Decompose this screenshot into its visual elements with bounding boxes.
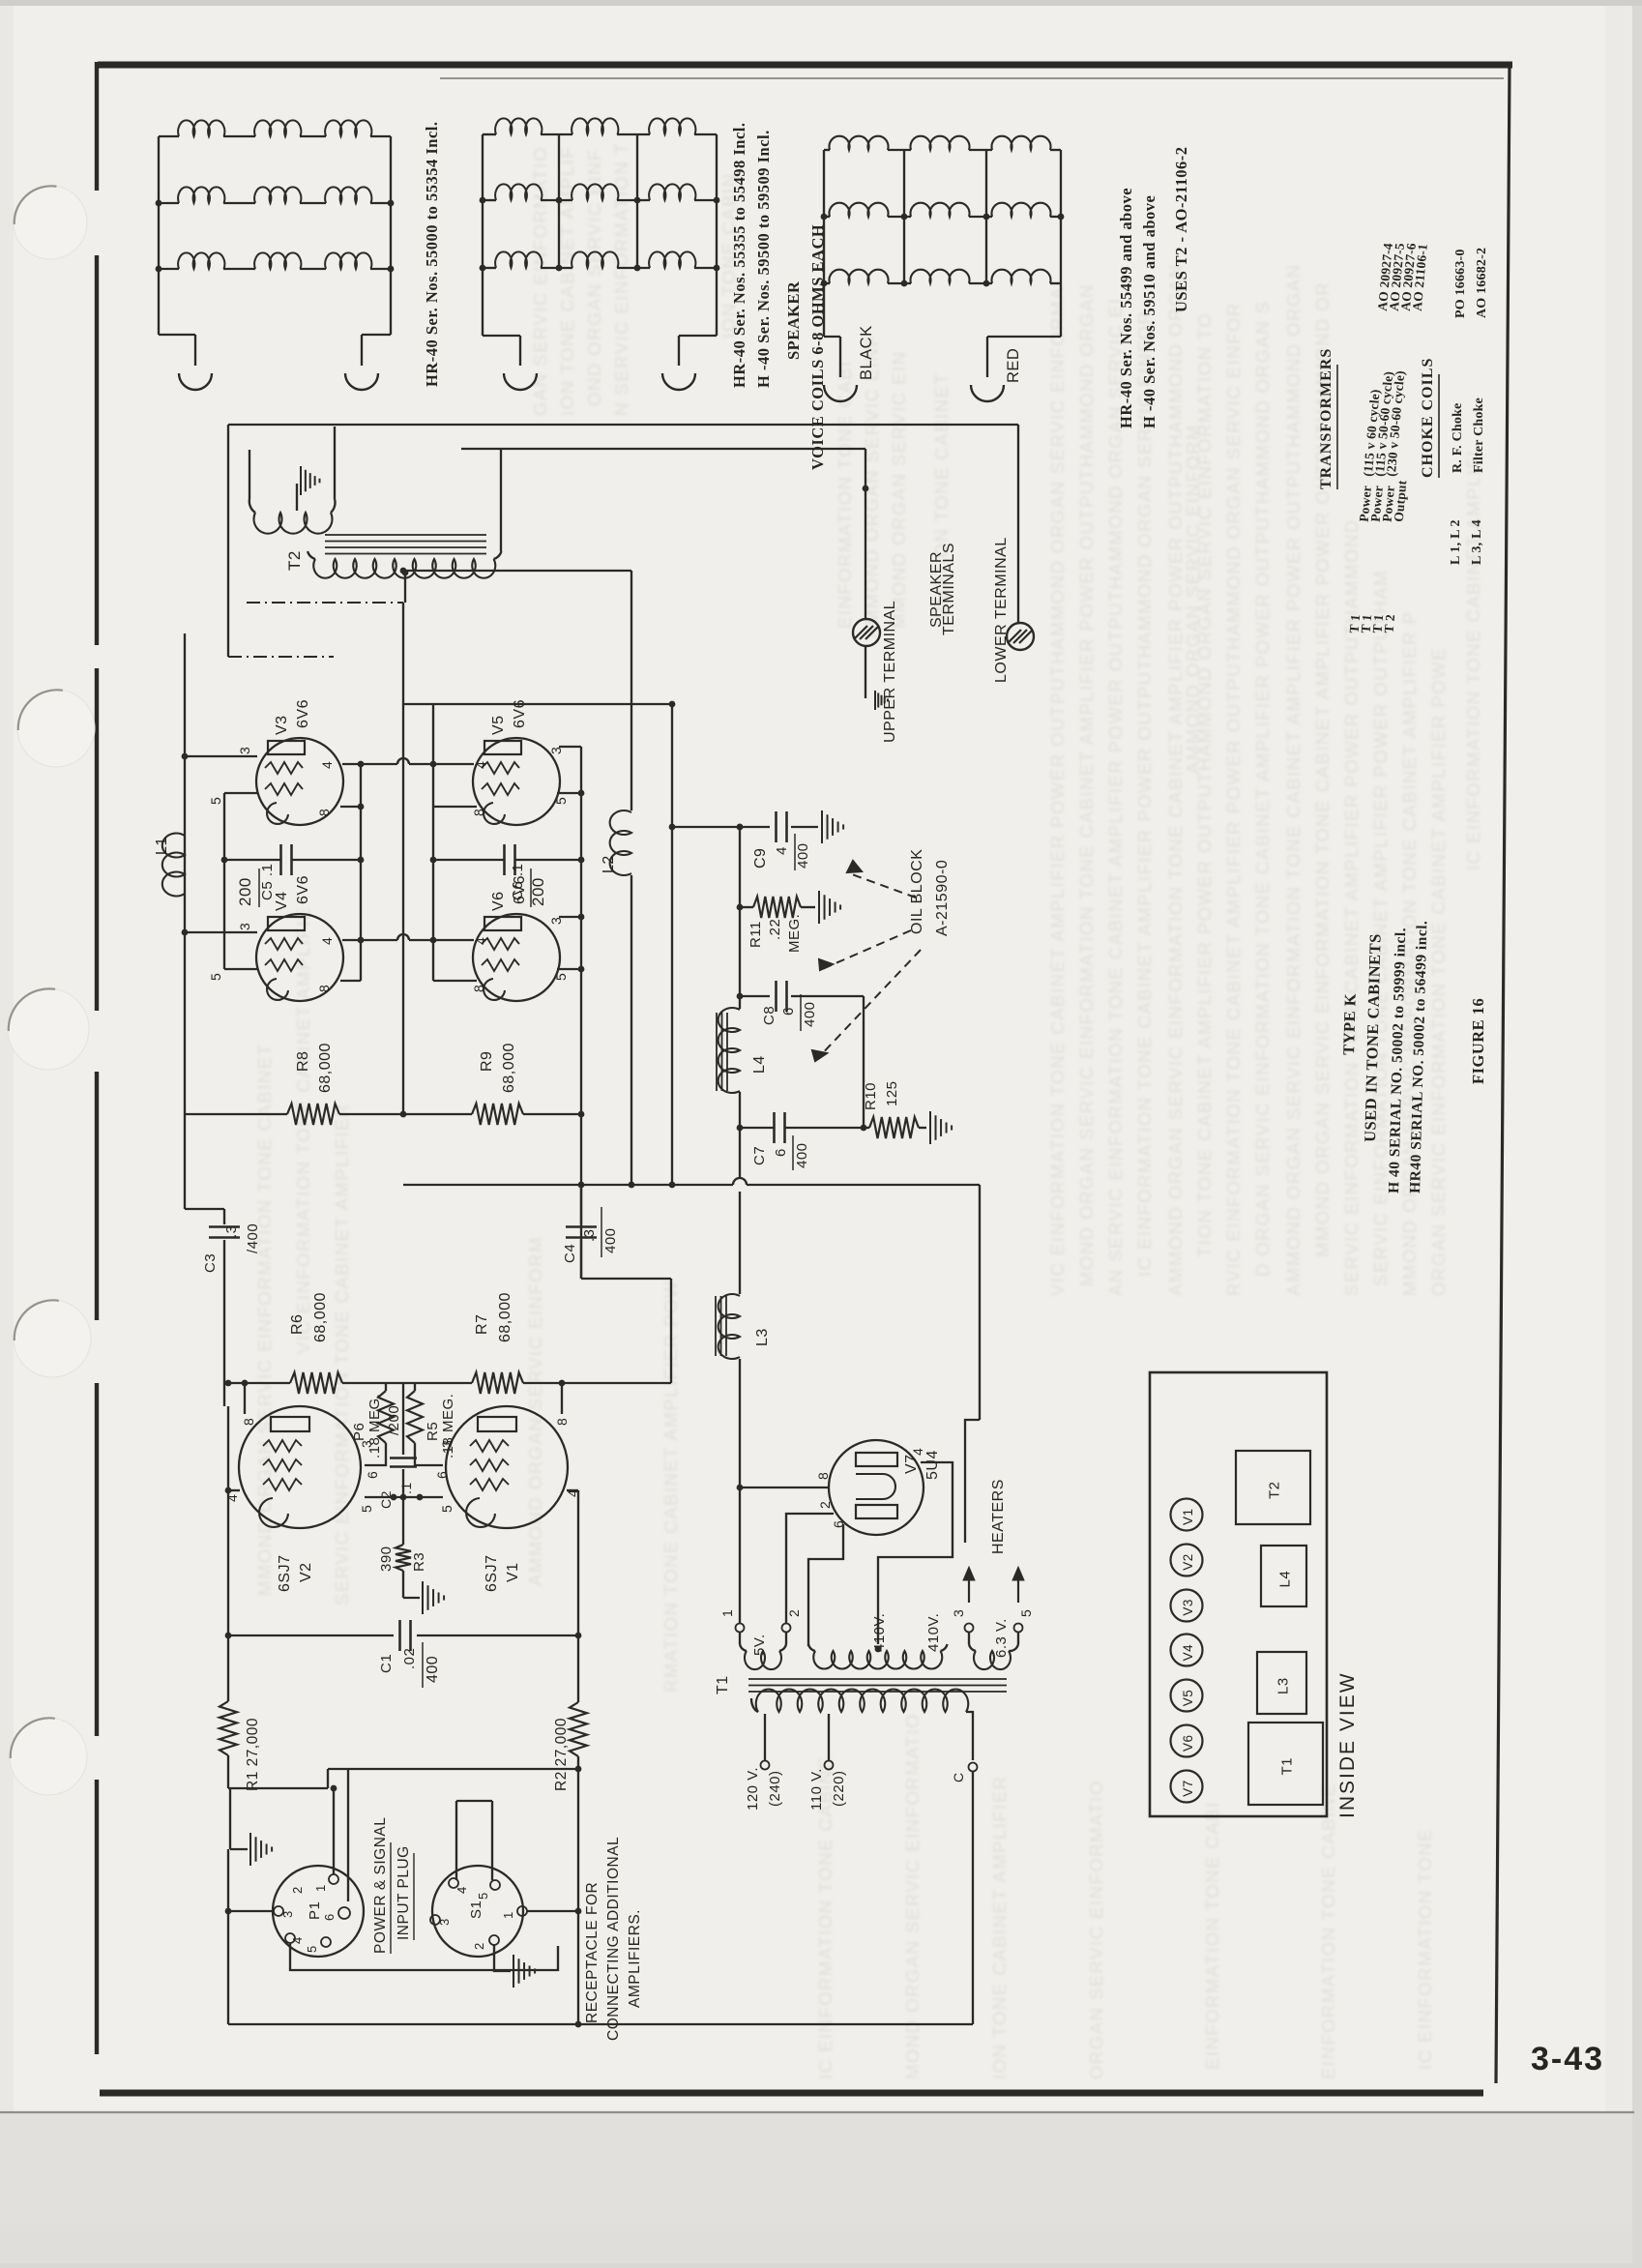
- choke L3 core: [715, 1296, 717, 1356]
- svg-text:120 V.: 120 V.: [745, 1767, 761, 1811]
- receptacle P1 body: [273, 1866, 364, 1957]
- wire bottom rail: [228, 2023, 578, 2025]
- svg-text:125: 125: [884, 1080, 900, 1106]
- svg-text:2: 2: [786, 1609, 802, 1617]
- wire R8 R9 plate rail: [185, 1113, 287, 1115]
- svg-text:.1: .1: [398, 1482, 414, 1494]
- wire left bus to input: [227, 1755, 229, 1788]
- wire rail 1829: [328, 1768, 578, 1770]
- svg-text:LOWER TERMINAL: LOWER TERMINAL: [993, 537, 1010, 683]
- svg-text:R6: R6: [289, 1314, 306, 1335]
- svg-text:MMOND ORGAN SERVIC EINFORMATIO: MMOND ORGAN SERVIC EINFORMATION TONE CAB…: [254, 1044, 275, 1596]
- svg-text:ION TONE CABINET AMPLIFIER: ION TONE CABINET AMPLIFIER: [989, 1775, 1010, 2079]
- transformer T2 core: [325, 534, 486, 536]
- svg-text:4: 4: [473, 761, 488, 769]
- svg-text:MEG.: MEG.: [786, 914, 803, 953]
- svg-text:5U4: 5U4: [924, 1450, 941, 1480]
- array 3 coil row 3: [824, 282, 830, 284]
- node C8: [737, 993, 744, 1000]
- speaker lower terminal: [1007, 623, 1034, 650]
- svg-text:5: 5: [208, 797, 223, 805]
- svg-text:C7: C7: [751, 1146, 768, 1165]
- wire S1 drop 2: [491, 1801, 493, 1880]
- svg-text:SERVIC EINFORMATION TONE CABIN: SERVIC EINFORMATION TONE CABINET AMPLIFI…: [1341, 518, 1362, 1296]
- svg-text:C3: C3: [202, 1253, 219, 1273]
- oil block arrow to C7: [815, 950, 921, 1061]
- svg-text:AMMOND ORGAN SERVIC EINFORMATI: AMMOND ORGAN SERVIC EINFORMATION TONE CA…: [1165, 264, 1186, 1296]
- svg-text:MMOND ORGAN SERVIC EIN: MMOND ORGAN SERVIC EIN: [889, 350, 909, 629]
- wire heater feed: [965, 1420, 980, 1543]
- wire V4 pin8: [340, 980, 361, 982]
- wire V3 pin8: [340, 806, 361, 808]
- wire V6 pin5: [557, 968, 581, 970]
- array 3 coil row 1: [824, 149, 830, 151]
- svg-text:68,000: 68,000: [317, 1043, 334, 1093]
- svg-text:FIGURE 16: FIGURE 16: [1469, 998, 1487, 1084]
- svg-text:GAN SERVIC EINFORMATIO: GAN SERVIC EINFORMATIO: [530, 146, 550, 416]
- inside view box T2: [1236, 1451, 1310, 1524]
- svg-text:TRANSFORMERS: TRANSFORMERS: [1318, 348, 1334, 489]
- svg-text:68,000: 68,000: [312, 1292, 329, 1342]
- svg-text:6SJ7: 6SJ7: [484, 1555, 500, 1592]
- wire below upper terminal: [865, 646, 866, 698]
- resistor R9: [472, 1104, 523, 1125]
- T1 120V tap: [764, 1714, 766, 1760]
- T1 C terminal: [969, 1763, 978, 1772]
- node V7 pin8 tap: [737, 1485, 744, 1491]
- svg-text:R8: R8: [295, 1051, 311, 1072]
- svg-text:6: 6: [322, 1913, 337, 1921]
- svg-text:C9: C9: [752, 848, 769, 869]
- svg-text:VIC EINFORMATION TONE CABINET: VIC EINFORMATION TONE CABINET AMPLIFIER …: [1047, 286, 1068, 1296]
- wire V3 pin5: [224, 792, 258, 794]
- inside view box L4: [1261, 1546, 1306, 1606]
- svg-text:P6: P6: [351, 1423, 367, 1441]
- svg-text:V4: V4: [1181, 1644, 1195, 1662]
- T1 terminal 5: [1014, 1624, 1023, 1633]
- wire pin4 tie rail lower: [361, 939, 397, 941]
- wire C8 to C7 rail: [863, 996, 865, 1128]
- svg-text:3-43: 3-43: [1531, 2041, 1604, 2077]
- svg-text:ORGAN SERVIC EINFORMATIO: ORGAN SERVIC EINFORMATIO: [1086, 1780, 1106, 2079]
- wire V6 pin8: [433, 980, 477, 982]
- svg-text:4: 4: [774, 846, 790, 855]
- T1 5V winding: [739, 1633, 741, 1644]
- svg-text:SPEAKER: SPEAKER: [784, 280, 803, 360]
- svg-text:AMPLIFIERS.: AMPLIFIERS.: [627, 1909, 643, 2008]
- svg-text:.22: .22: [767, 919, 783, 940]
- svg-text:V3: V3: [274, 715, 290, 735]
- wire left input bus: [227, 1406, 229, 1701]
- tube V6 6V6: [473, 914, 560, 1001]
- svg-text:RED: RED: [1005, 348, 1022, 383]
- svg-text:2: 2: [290, 1886, 305, 1894]
- resistor R3: [402, 1497, 404, 1545]
- svg-text:5: 5: [208, 973, 223, 981]
- svg-text:V6: V6: [1181, 1734, 1195, 1752]
- T2 center tap: [402, 570, 409, 576]
- svg-text:68,000: 68,000: [497, 1292, 513, 1342]
- svg-text:OIL BLOCK: OIL BLOCK: [909, 849, 925, 934]
- svg-text:6: 6: [773, 1148, 789, 1157]
- wire B+ bus lower: [739, 1192, 741, 1294]
- wire V3 pin3: [185, 755, 257, 757]
- svg-text:L3: L3: [754, 1328, 771, 1346]
- svg-text:(240): (240): [767, 1770, 783, 1807]
- node B+ C9: [737, 824, 744, 831]
- svg-text:EINFORMATION TONE CABI: EINFORMATION TONE CABI: [1202, 1801, 1222, 2070]
- inside view tube V2: [1171, 1545, 1203, 1576]
- svg-text:CHOKE COILS: CHOKE COILS: [1420, 358, 1436, 478]
- choke L4: [718, 1008, 740, 1093]
- svg-text:V6: V6: [490, 891, 507, 911]
- svg-text:L 1, L 2: L 1, L 2: [1449, 519, 1463, 565]
- receptacle S1 body: [432, 1866, 523, 1957]
- svg-text:3: 3: [237, 923, 252, 930]
- inside view tube V7: [1171, 1771, 1203, 1803]
- wire P1 drop 2: [347, 1769, 349, 1901]
- ground R10: [929, 1111, 931, 1144]
- wire V2 pin8 to plate rail: [244, 1383, 246, 1414]
- svg-text:5: 5: [476, 1892, 490, 1900]
- wire V7 pin2: [786, 1514, 834, 1624]
- svg-text:RECEPTACLE FOR: RECEPTACLE FOR: [584, 1882, 601, 2023]
- resistor R6: [290, 1372, 342, 1394]
- svg-text:R1 27,000: R1 27,000: [245, 1718, 261, 1791]
- S1 pin 1: [517, 1906, 527, 1916]
- wire P1 pin3 to bus: [228, 1910, 274, 1912]
- P1 pin 6: [338, 1907, 350, 1919]
- wire S1 pin1 right: [527, 1910, 578, 1912]
- svg-text:H -40 Ser. Nos. 59500 to 5950: H -40 Ser. Nos. 59500 to 59509 Incl.: [754, 130, 773, 388]
- svg-text:MOND ORGAN SERVIC EINFORMATION: MOND ORGAN SERVIC EINFORMATION TONE CABI…: [1076, 283, 1097, 1286]
- svg-text:TERMINALS: TERMINALS: [941, 543, 957, 635]
- wire V1 pin4: [567, 1489, 578, 1491]
- capacitor C5: [224, 859, 280, 861]
- svg-text:3: 3: [237, 747, 252, 754]
- node center bus at R8 rail: [400, 1111, 407, 1118]
- svg-text:.3: .3: [581, 1228, 598, 1242]
- svg-text:V1: V1: [1181, 1508, 1195, 1525]
- svg-text:C: C: [951, 1772, 966, 1782]
- speaker upper terminal: [853, 619, 880, 646]
- svg-text:Filter Choke: Filter Choke: [1472, 398, 1486, 473]
- svg-text:8: 8: [241, 1418, 256, 1426]
- wire input ground lead: [229, 1788, 231, 1849]
- transformer T2 frame left: [227, 425, 229, 657]
- wire V4 pin4: [342, 939, 361, 941]
- svg-text:/200: /200: [386, 1405, 402, 1435]
- array 2 right plug: [662, 373, 695, 390]
- svg-text:EINFORMATION TONE CABINE: EINFORMATION TONE CABINE: [1318, 1783, 1338, 2079]
- choke L1: [162, 833, 185, 896]
- svg-text:R10: R10: [863, 1082, 879, 1110]
- svg-text:.18 MEG.: .18 MEG.: [440, 1394, 456, 1458]
- capacitor C9: [740, 826, 770, 828]
- array 3 node dots: [821, 214, 828, 221]
- transformer T2 primary winding: [308, 551, 315, 559]
- svg-text:T2: T2: [1267, 1481, 1283, 1499]
- T1 terminal 1: [736, 1624, 745, 1633]
- array 1 right plug: [345, 373, 378, 390]
- svg-text:A-21590-0: A-21590-0: [934, 860, 951, 936]
- svg-text:2: 2: [817, 1501, 833, 1509]
- wire V7 pin8: [740, 1487, 830, 1488]
- svg-text:5: 5: [553, 973, 569, 981]
- choke L2: [610, 810, 631, 875]
- inside view box L3: [1257, 1652, 1306, 1714]
- array 3 black plug: [824, 385, 857, 401]
- array 2 coil row 3: [483, 267, 496, 269]
- svg-text:C5 .1: C5 .1: [259, 864, 276, 900]
- choke L4 core: [716, 1013, 718, 1091]
- svg-text:L4: L4: [1277, 1571, 1294, 1588]
- svg-text:4: 4: [290, 1936, 305, 1944]
- svg-text:HR-40 Ser. Nos. 55355 to 55498: HR-40 Ser. Nos. 55355 to 55498 Incl.: [730, 122, 748, 388]
- svg-text:C4: C4: [562, 1244, 578, 1263]
- array 2 coil row 1: [483, 133, 496, 135]
- wire branch to L2: [630, 571, 632, 810]
- svg-text:4: 4: [454, 1886, 469, 1894]
- svg-text:RVIC EINFORMATION TONE CABINET: RVIC EINFORMATION TONE CABINET AMPLIFIER…: [1223, 302, 1244, 1296]
- svg-text:S1: S1: [468, 1900, 484, 1919]
- svg-text:V2: V2: [1181, 1553, 1195, 1571]
- svg-text:6: 6: [365, 1471, 380, 1479]
- svg-text:V7: V7: [903, 1454, 920, 1474]
- tube V3 6V6: [256, 738, 343, 825]
- array 1 left plug: [179, 373, 212, 390]
- svg-text:5: 5: [439, 1505, 454, 1513]
- tube V4 6V6: [256, 914, 343, 1001]
- svg-text:IC EINFORMATION TONE: IC EINFORMATION TONE: [1415, 1828, 1435, 2070]
- svg-text:HEATERS: HEATERS: [990, 1479, 1007, 1554]
- svg-text:R2 27,000: R2 27,000: [553, 1718, 570, 1791]
- svg-text:UPPER TERMINAL: UPPER TERMINAL: [882, 601, 898, 743]
- transformer T2 secondary winding: [249, 450, 250, 499]
- array 2 left plug: [504, 373, 537, 390]
- wire V4 pin3: [185, 931, 257, 933]
- resistor R7: [472, 1372, 523, 1394]
- wire V3 pin4: [342, 763, 361, 765]
- svg-text:V2: V2: [298, 1562, 314, 1582]
- ground input: [249, 1833, 251, 1866]
- svg-text:P1: P1: [307, 1901, 323, 1920]
- svg-text:R5: R5: [425, 1422, 441, 1441]
- tube V2 6SJ7: [239, 1406, 361, 1528]
- svg-text:6.3 V.: 6.3 V.: [993, 1618, 1010, 1658]
- T2 shield dash line 1: [247, 602, 403, 604]
- svg-text:AMMOND ORGAN SERVIC EINFORM: AMMOND ORGAN SERVIC EINFORM: [1183, 424, 1203, 774]
- wire B+ node rail: [672, 826, 740, 828]
- T1 110V tap: [828, 1714, 830, 1760]
- array 1 right plug lead: [362, 334, 391, 336]
- array 2 coil row 2: [483, 199, 496, 201]
- wire V2 pin4: [228, 1489, 240, 1491]
- resistor R10: [864, 1127, 869, 1129]
- svg-text:H -40 Ser. Nos. 59510 and abo: H -40 Ser. Nos. 59510 and above: [1140, 195, 1158, 428]
- wire V5-V6 right bus: [580, 747, 582, 1279]
- inside view tube V1: [1171, 1499, 1203, 1531]
- svg-text:5: 5: [1018, 1609, 1034, 1617]
- array 1 left plug lead: [159, 334, 195, 336]
- T1 410V winding: [808, 1644, 815, 1651]
- wire tap branch: [403, 570, 631, 572]
- wire plate rail 1430: [228, 1382, 290, 1384]
- oil block arrow to C8: [820, 930, 911, 970]
- svg-text:3: 3: [548, 747, 564, 754]
- svg-text:L2: L2: [601, 855, 617, 873]
- resistor R2: [570, 1702, 587, 1756]
- svg-text:AN SERVIC EINFORMATION TONE CA: AN SERVIC EINFORMATION TONE CABINET AMPL…: [1105, 298, 1126, 1296]
- svg-text:T2: T2: [285, 550, 304, 571]
- svg-text:2: 2: [472, 1942, 486, 1950]
- wire L4 down: [739, 1092, 741, 1178]
- ground R11: [818, 891, 820, 924]
- wire v448 bus: [432, 704, 434, 981]
- node rail 1225 joins: [629, 1182, 635, 1189]
- svg-text:.02: .02: [401, 1648, 418, 1669]
- wire rail 1225 to T1: [979, 1185, 981, 1420]
- wire L2 down: [630, 875, 632, 1185]
- svg-text:110 V.: 110 V.: [808, 1768, 825, 1811]
- wire L1 bus: [184, 633, 186, 1209]
- svg-text:PO 16663-0: PO 16663-0: [1453, 249, 1468, 318]
- svg-text:L3: L3: [1275, 1677, 1292, 1694]
- svg-text:400: 400: [425, 1656, 441, 1683]
- transformer T1 core: [748, 1678, 1007, 1680]
- svg-text:5: 5: [305, 1945, 319, 1953]
- svg-text:ORGAN SERVIC EINFORMATION TONE: ORGAN SERVIC EINFORMATION TONE CABINET A…: [1428, 647, 1449, 1296]
- svg-text:L 3, L 4: L 3, L 4: [1470, 519, 1484, 565]
- heater arrow 5: [1017, 1572, 1019, 1603]
- svg-text:VOICE COILS 6-8 OHMS EACH: VOICE COILS 6-8 OHMS EACH: [808, 224, 827, 470]
- wire cathode tie: [365, 1496, 443, 1498]
- inside view tube V6: [1171, 1725, 1203, 1757]
- speaker voice coil array 2 frame: [482, 134, 484, 336]
- svg-text:C1: C1: [378, 1654, 395, 1673]
- wire V7 pin6: [808, 1524, 843, 1646]
- array 1 coil row 2: [159, 202, 179, 204]
- svg-text:200: 200: [236, 877, 254, 906]
- svg-text:8: 8: [815, 1472, 831, 1480]
- svg-text:6: 6: [434, 1471, 450, 1479]
- oil block arrow to C9: [849, 873, 916, 898]
- transformer T1 primary winding: [751, 1698, 758, 1712]
- svg-text:L1: L1: [154, 837, 170, 855]
- choke L3: [718, 1294, 740, 1359]
- resistor P6: [385, 1383, 387, 1391]
- wire R2 bus down: [577, 1756, 579, 2024]
- wire V5 pin8: [433, 806, 477, 808]
- svg-text:400: 400: [795, 842, 811, 869]
- svg-text:V4: V4: [274, 891, 290, 911]
- S1 pin 3: [430, 1915, 440, 1925]
- node junction upper terminal riser: [863, 486, 869, 492]
- capacitor C8: [740, 995, 770, 997]
- svg-text:6SJ7: 6SJ7: [277, 1555, 293, 1592]
- wire B+ bus upper: [739, 827, 741, 1009]
- svg-text:R. F. Choke: R. F. Choke: [1451, 403, 1465, 473]
- svg-text:AO 16682-2: AO 16682-2: [1475, 248, 1489, 318]
- svg-text:8: 8: [554, 1418, 570, 1426]
- resistor R11: [740, 906, 753, 908]
- svg-text:8: 8: [316, 809, 332, 816]
- wire V6 pin4: [433, 939, 474, 941]
- wire grid rail: [403, 703, 672, 705]
- S1 pin 4: [449, 1878, 458, 1888]
- svg-text:L4: L4: [751, 1055, 768, 1074]
- svg-text:INSIDE VIEW: INSIDE VIEW: [1336, 1671, 1359, 1818]
- resistor R5: [414, 1383, 416, 1391]
- heater arrow 3: [968, 1572, 970, 1603]
- svg-text:C8: C8: [761, 1006, 777, 1025]
- svg-text:410V.: 410V.: [925, 1613, 942, 1652]
- svg-text:IC EINFORMATION TONE CABINET A: IC EINFORMATION TONE CABINET AMPLIFI: [1463, 450, 1483, 870]
- tube V5 6V6: [473, 738, 560, 825]
- wire rail 1322: [581, 1278, 671, 1280]
- svg-text:400: 400: [802, 1001, 818, 1027]
- wire P1 drop 1: [333, 1788, 335, 1874]
- svg-text:USES T2 - AO-21106-2: USES T2 - AO-21106-2: [1172, 146, 1190, 312]
- svg-text:8: 8: [316, 985, 332, 992]
- wire left bus bottom: [227, 1849, 229, 2024]
- svg-text:V5: V5: [1181, 1690, 1195, 1707]
- array 1 node dots: [156, 200, 162, 207]
- svg-text:4: 4: [910, 1448, 925, 1456]
- svg-text:410V.: 410V.: [871, 1613, 888, 1652]
- svg-text:HR-40 Ser. Nos. 55000 to 55354: HR-40 Ser. Nos. 55000 to 55354 Incl.: [423, 121, 441, 387]
- wire v373 bus: [360, 764, 362, 981]
- wire V7 pin4: [878, 1462, 953, 1644]
- svg-text:CONNECTING ADDITIONAL: CONNECTING ADDITIONAL: [605, 1837, 622, 2041]
- inside view box T1: [1248, 1723, 1323, 1805]
- P1 pin 3: [274, 1906, 283, 1916]
- array 2 right plug lead: [679, 335, 717, 337]
- ground at upper terminal: [874, 691, 876, 710]
- svg-text:6V6: 6V6: [295, 699, 311, 728]
- wire V6 pin3: [559, 916, 581, 918]
- svg-text:4: 4: [319, 761, 335, 769]
- svg-text:8: 8: [471, 809, 486, 816]
- svg-text:1: 1: [719, 1609, 735, 1617]
- P1 pin 5: [321, 1937, 331, 1947]
- svg-text:390: 390: [378, 1546, 395, 1572]
- svg-text:POWER & SIGNAL: POWER & SIGNAL: [372, 1817, 389, 1954]
- node v695 grid rail: [669, 701, 676, 708]
- wire plate rail to upper terminal: [461, 448, 865, 450]
- inside view tube V5: [1171, 1680, 1203, 1712]
- svg-text:5: 5: [359, 1505, 374, 1513]
- capacitor C1: [228, 1635, 394, 1636]
- wire V1 pin8 to plate rail: [561, 1383, 563, 1414]
- wire pin4 tie rail upper: [361, 763, 397, 765]
- inside view tube V4: [1171, 1635, 1203, 1666]
- S1 pin 2: [489, 1935, 499, 1945]
- array 3 red plug lead: [1060, 283, 1062, 337]
- P1 pin 1: [329, 1874, 338, 1884]
- svg-text:T1: T1: [715, 1675, 731, 1694]
- wire S1 pin2 ground: [494, 1945, 511, 1971]
- svg-text:SERVIC EINFORMATION TONE CABIN: SERVIC EINFORMATION TONE CABINET AMPLIFI…: [332, 1103, 352, 1605]
- svg-text:R11: R11: [748, 921, 764, 948]
- array 3 coil row 2: [824, 216, 830, 218]
- svg-text:6V6: 6V6: [512, 699, 528, 728]
- svg-text:1: 1: [501, 1911, 515, 1919]
- speaker voice coil array 3 frame: [823, 150, 825, 337]
- svg-text:5V.: 5V.: [751, 1634, 768, 1656]
- wire V4 pin5: [224, 968, 258, 970]
- wire v695 bus: [671, 704, 673, 1185]
